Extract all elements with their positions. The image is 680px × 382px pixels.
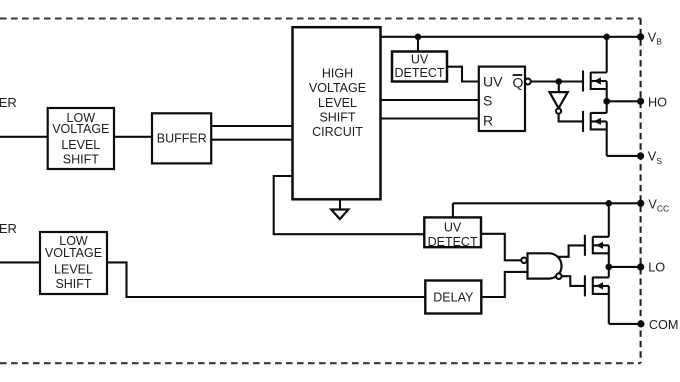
block U9 delay	[425, 281, 481, 314]
wire VCC rail	[453, 202, 641, 204]
block U8 UV detect (low side)	[424, 217, 481, 248]
svg-text:LEVEL: LEVEL	[318, 96, 357, 110]
wire VB rail	[381, 36, 641, 38]
wire delay to NAND	[481, 272, 527, 297]
wire HIN input	[0, 136, 48, 138]
svg-text:ER: ER	[0, 95, 17, 110]
block U1 low voltage level shift (high side)	[48, 108, 114, 169]
svg-text:SHIFT: SHIFT	[319, 111, 355, 125]
pin LO	[637, 263, 644, 270]
pin COM	[637, 320, 644, 327]
wire NAND bottom out to gate Q4	[562, 276, 585, 286]
bubble inverter output	[556, 109, 561, 114]
pin VS	[637, 152, 644, 159]
svg-text:LEVEL: LEVEL	[61, 138, 100, 152]
wire down to inverter	[558, 82, 560, 93]
svg-text:LEVEL: LEVEL	[54, 262, 93, 276]
block U3 high voltage level shift circuit	[293, 27, 381, 199]
wire Qbar to gate Q1	[531, 80, 583, 82]
svg-text:CIRCUIT: CIRCUIT	[312, 125, 363, 139]
svg-text:HO: HO	[648, 95, 667, 109]
svg-text:VOLTAGE: VOLTAGE	[45, 246, 102, 260]
transistor Q1 (high side upper MOSFET)	[583, 37, 607, 102]
wire VS	[607, 155, 641, 157]
bubble NAND input	[521, 258, 527, 264]
dashed IC border right	[640, 19, 642, 364]
svg-text:ER: ER	[0, 221, 17, 236]
junction dot VB/UVdetect	[415, 34, 422, 41]
latch U5 UV/S/R with Qbar	[479, 67, 525, 131]
wire LIN input	[0, 261, 40, 263]
wire VCC tap	[452, 203, 454, 217]
transistor Q2 (high side lower MOSFET)	[583, 101, 607, 156]
junction dot HO node	[603, 98, 610, 105]
svg-text:Q: Q	[513, 74, 524, 90]
wire R input	[381, 117, 480, 119]
wire buffer out top	[212, 125, 293, 127]
wire LO	[609, 266, 641, 268]
wire U3 to low UV detect	[274, 176, 425, 234]
svg-text:S: S	[483, 93, 492, 109]
wire U7 to delay	[107, 262, 425, 297]
block U7 low voltage level shift (low side)	[40, 232, 107, 294]
wire NAND top out to gate Q3	[558, 245, 585, 256]
inverter U6	[550, 92, 568, 108]
bubble NAND output	[556, 273, 562, 279]
transistor Q3 (low side upper MOSFET)	[585, 203, 609, 267]
wire HO	[607, 100, 641, 102]
dashed IC border top	[0, 17, 641, 19]
wire S input	[381, 99, 480, 101]
wire inverter to gate Q2	[559, 114, 583, 122]
svg-text:UV: UV	[411, 53, 429, 67]
gate U10 NAND body	[528, 253, 562, 278]
svg-text:HIGH: HIGH	[322, 66, 353, 80]
svg-text:BUFFER: BUFFER	[157, 131, 207, 145]
svg-text:DETECT: DETECT	[395, 66, 445, 80]
svg-text:COM: COM	[649, 318, 679, 332]
svg-text:UV: UV	[444, 220, 462, 234]
ground stem below U3	[339, 199, 341, 209]
junction dot VB drain	[603, 34, 610, 41]
block U4 UV detect (high side)	[392, 52, 447, 82]
junction dot VCC drain	[606, 200, 613, 207]
transistor Q4 (low side lower MOSFET)	[585, 267, 609, 324]
pin VCC	[637, 200, 644, 207]
wire COM	[609, 323, 641, 325]
svg-text:UV: UV	[483, 74, 503, 90]
wire UV detect to NAND	[481, 234, 521, 260]
block U2 buffer	[152, 113, 211, 163]
wire UV detect to latch UV	[447, 67, 480, 82]
bubble latch Qbar output	[525, 79, 531, 85]
wire LVLS to buffer	[114, 136, 152, 138]
pin HO	[637, 98, 644, 105]
svg-text:VOLTAGE: VOLTAGE	[309, 81, 366, 95]
pin VB	[637, 33, 644, 40]
svg-text:R: R	[483, 113, 493, 129]
wire UV detect tap	[417, 37, 419, 52]
svg-text:DELAY: DELAY	[433, 290, 474, 304]
dashed IC border bottom	[0, 362, 641, 364]
svg-text:DETECT: DETECT	[428, 235, 478, 249]
svg-text:VOLTAGE: VOLTAGE	[52, 122, 109, 136]
junction dot LO node	[605, 264, 612, 271]
svg-text:SHIFT: SHIFT	[63, 153, 99, 167]
junction dot Qbar node	[556, 78, 563, 85]
wire buffer out bottom	[212, 139, 293, 141]
svg-text:SHIFT: SHIFT	[55, 277, 91, 291]
ground arrow (to VS)	[331, 210, 348, 220]
svg-text:LO: LO	[648, 260, 665, 274]
